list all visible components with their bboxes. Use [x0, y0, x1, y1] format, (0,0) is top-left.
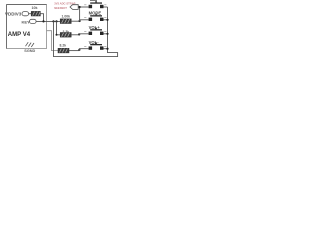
svg-text:3.3k: 3.3k	[63, 30, 70, 34]
wire to SW3 left	[79, 34, 88, 35]
junction row3 feed	[56, 34, 58, 36]
sheet name text AMP V4	[8, 32, 31, 38]
switch SW3 VOL-	[84, 28, 107, 36]
svg-text:KEY: KEY	[22, 19, 31, 24]
svg-text:MODE: MODE	[89, 10, 102, 15]
red annotation line 1	[54, 2, 75, 6]
junction row3	[78, 33, 80, 35]
switch SW4	[84, 42, 107, 50]
wire KEY line	[36, 20, 60, 22]
label VOL-	[89, 40, 100, 45]
junction KEY branch B	[55, 20, 57, 22]
value label 3.3k	[63, 30, 70, 34]
wire R1 right then down to KEY line	[40, 14, 43, 22]
wire right bus and bottom return	[54, 7, 118, 57]
svg-text:AMP V4: AMP V4	[8, 32, 31, 38]
wire R3 to SW3	[71, 34, 79, 36]
svg-text:1.00k: 1.00k	[62, 14, 71, 18]
svg-text:8.2k: 8.2k	[60, 43, 67, 47]
clipped label above SW1	[90, 0, 97, 2]
svg-text:VDDIV3: VDDIV3	[5, 12, 22, 17]
wire label to SW1	[78, 6, 88, 8]
junction bus SW3	[106, 33, 108, 35]
svg-text:10k: 10k	[32, 6, 38, 10]
switch SW1 MODE	[84, 1, 107, 9]
sheet pin KEY	[30, 19, 37, 23]
value label 1.00k	[62, 14, 71, 18]
resistor R3 3.3k	[60, 33, 71, 38]
sheet box AMP V4	[7, 5, 47, 49]
wire R2 to SW2	[71, 20, 79, 22]
pin name KEY	[22, 19, 31, 24]
label MODE	[89, 10, 102, 15]
wire GND pin from sheet	[47, 31, 59, 51]
junction bus SW4	[106, 48, 108, 50]
resistor R4 6.8k	[58, 48, 69, 53]
resistor R1 10k	[31, 11, 40, 16]
junction bus SW2	[106, 19, 108, 21]
wire to SW2 left	[80, 20, 89, 21]
junction row4	[78, 49, 80, 51]
global label KEY row1	[70, 5, 78, 10]
wire VDDIV3 pin to R1	[29, 13, 32, 15]
red annotation line 2	[54, 6, 67, 10]
junction row2	[79, 20, 81, 22]
wire to SW4 left	[79, 49, 88, 51]
ground symbol SGND	[26, 42, 35, 47]
wire R4 to SW4	[69, 50, 79, 52]
svg-text:SGND: SGND	[24, 49, 35, 53]
resistor R2 1.00k	[60, 19, 71, 24]
junction at R1 drop	[42, 20, 44, 22]
junction row1	[79, 6, 81, 8]
value label 10k	[32, 6, 38, 10]
ground label SGND	[24, 49, 35, 53]
junction KEY branch A	[52, 20, 54, 22]
sheet pin VDDIV3	[22, 12, 29, 16]
value label 6.8k	[60, 43, 67, 47]
label VOL+	[89, 25, 101, 30]
pin name VDDIV3	[5, 12, 22, 17]
wire bus row1-row2	[79, 7, 81, 21]
switch SW2 VOL+	[84, 14, 107, 22]
wire branch B down to row3	[57, 21, 61, 34]
